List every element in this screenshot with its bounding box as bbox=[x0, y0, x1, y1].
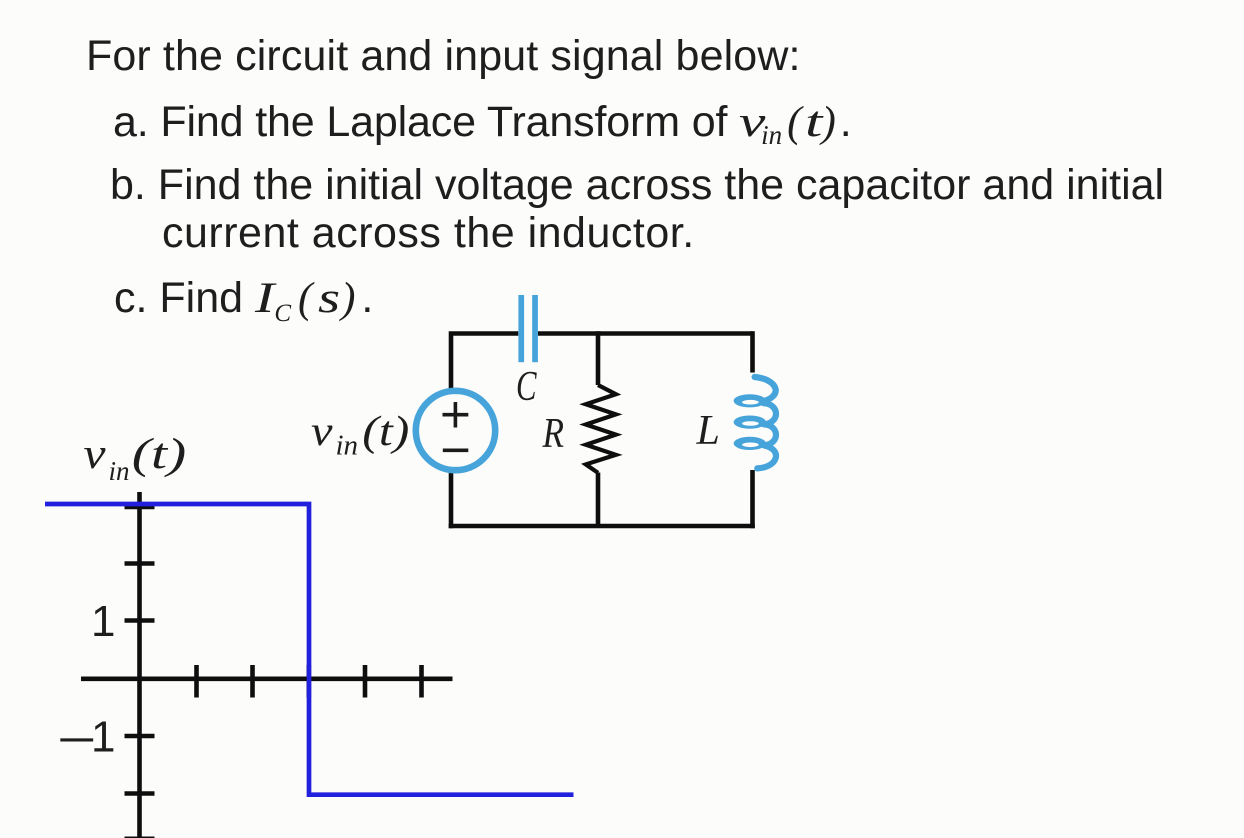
wire: source to capacitor left plate (top-left corner) bbox=[451, 334, 518, 390]
svg-text:in: in bbox=[109, 456, 130, 486]
wire: bottom rail bbox=[449, 524, 755, 529]
svg-text:C: C bbox=[516, 364, 537, 410]
svg-text:v: v bbox=[84, 431, 107, 478]
wire: capacitor right plate to top-right corner bbox=[538, 331, 753, 336]
item b line 1 bbox=[110, 164, 1164, 207]
signal trace v_in(t) step waveform bbox=[45, 504, 574, 795]
svg-text:(t): (t) bbox=[132, 431, 187, 478]
problem statement line 1 bbox=[86, 35, 801, 78]
voltage source minus terminal bbox=[443, 448, 469, 452]
svg-text:in: in bbox=[336, 430, 359, 462]
capacitor label C bbox=[516, 364, 537, 410]
resistor R (zigzag) bbox=[586, 385, 616, 473]
wire: right branch top stub to inductor bbox=[750, 331, 755, 372]
graph axis label v_in(t) bbox=[84, 431, 187, 486]
graph vertical axis bbox=[137, 492, 142, 838]
inductor L (blue coil) bbox=[734, 377, 776, 468]
y-axis tick marks bbox=[125, 507, 155, 838]
wire: source to bottom-left corner bbox=[449, 473, 454, 528]
voltage source V1 (circle) bbox=[416, 391, 495, 470]
svg-text:L: L bbox=[696, 408, 720, 454]
wire: resistor to bottom wire bbox=[596, 473, 601, 527]
resistor label R bbox=[542, 411, 564, 457]
svg-text:v: v bbox=[311, 409, 333, 455]
item c with value label I_C(s) bbox=[114, 277, 373, 320]
source label v_in(t) bbox=[311, 409, 409, 462]
svg-text:(t): (t) bbox=[362, 409, 409, 455]
x-axis tick marks bbox=[197, 665, 422, 698]
item b line 2 bbox=[162, 212, 695, 255]
y-axis label 1 bbox=[91, 597, 115, 646]
wire: inductor to bottom-right corner bbox=[750, 470, 755, 528]
wire: middle branch top (node to resistor) bbox=[596, 331, 601, 385]
svg-text:1: 1 bbox=[91, 713, 115, 762]
y-axis label -1 bbox=[57, 713, 115, 765]
voltage source plus terminal bbox=[443, 402, 469, 428]
graph horizontal axis bbox=[81, 676, 453, 681]
item a with value label v_in(t) bbox=[113, 101, 852, 144]
capacitor C (two blue plates) bbox=[518, 295, 538, 362]
svg-text:R: R bbox=[542, 411, 564, 457]
inductor label L bbox=[696, 408, 720, 454]
svg-text:1: 1 bbox=[91, 597, 115, 646]
